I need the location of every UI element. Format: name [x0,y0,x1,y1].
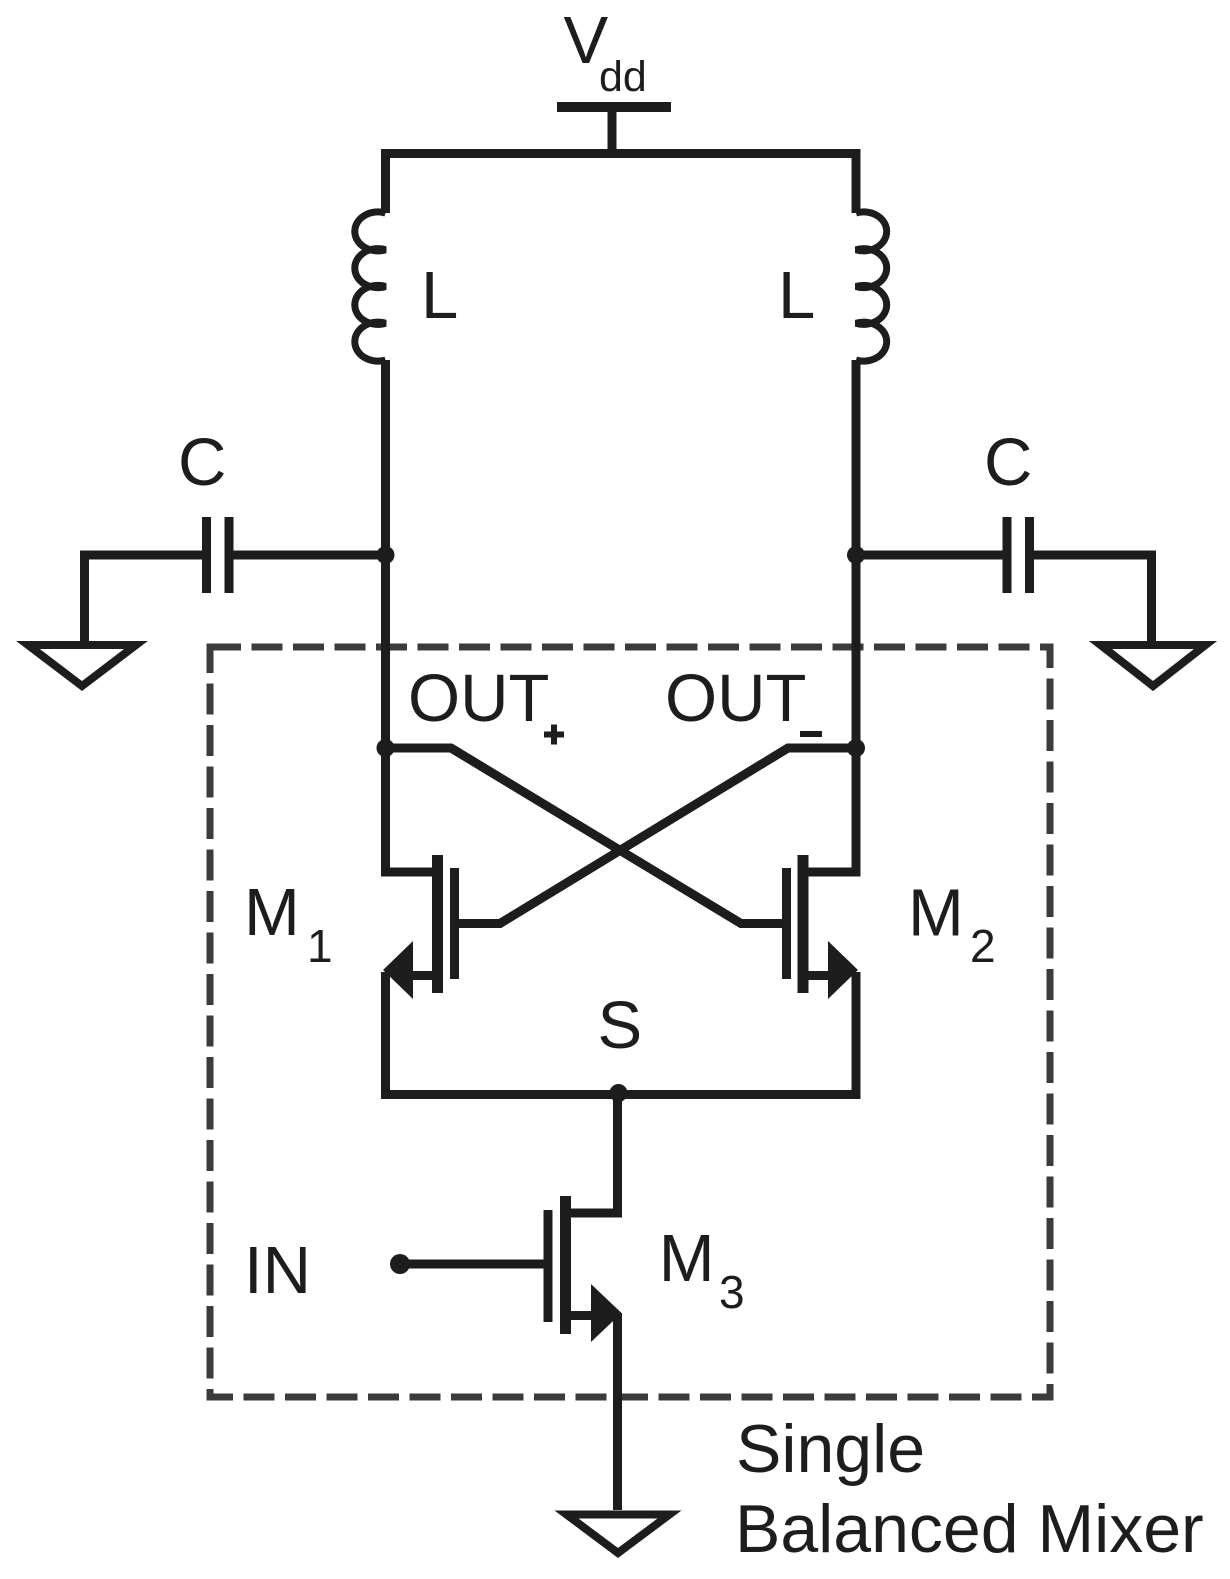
node S dot [610,1084,628,1102]
transistor M3 channel bar [560,1196,571,1334]
wire M1 source down + bottom S rail + M2 source down [386,972,857,1095]
svg-text:M: M [659,1221,715,1296]
capacitor C left plates [207,517,230,593]
svg-text:S: S [598,988,643,1063]
svg-text:L: L [778,258,815,333]
wire M3 source down to ground [613,1313,622,1510]
transistor M3 source lead [570,1311,592,1320]
svg-text:M: M [908,876,964,951]
transistor M3 source arrow [591,1284,622,1342]
label OUT+ plus sign [544,725,564,745]
capacitor C left wires [85,555,386,643]
transistor M1 channel bar [432,855,443,993]
svg-text:IN: IN [244,1233,311,1308]
svg-text:L: L [421,258,458,333]
wire cross-couple OUT+ to M2 gate [386,748,788,924]
transistor M2 source arrow [828,941,858,999]
svg-text:Balanced Mixer: Balanced Mixer [735,1491,1204,1567]
wire IN gate lead [400,1260,552,1269]
svg-text:2: 2 [970,920,996,972]
transistor M2 channel bar [798,855,809,993]
ground left [28,645,136,686]
svg-text:Single: Single [736,1411,925,1487]
svg-text:1: 1 [307,920,333,972]
svg-text:3: 3 [719,1266,745,1318]
capacitor C right plates [1007,517,1030,593]
ground bottom [567,1515,670,1554]
wire right branch [808,360,856,872]
svg-text:C: C [984,425,1032,500]
transistor M3 gate bar [544,1210,553,1322]
transistor M1 source lead [411,971,433,980]
node IN terminal dot [390,1254,410,1274]
wire S node stub to M3 drain [570,1090,618,1213]
inductor L right [856,212,887,361]
capacitor C right wires [856,555,1152,643]
inductor L left [355,212,386,361]
node OUT- dot [847,739,865,757]
transistor M2 gate bar [782,868,791,979]
svg-text:C: C [178,425,226,500]
transistor M1 source arrow [383,941,413,999]
wire cross-couple OUT- to M1 gate [454,748,856,924]
svg-text:M: M [244,875,300,950]
supply bar Vdd [557,102,671,112]
transistor M1 gate bar [450,868,459,979]
svg-text:OUT: OUT [408,661,549,736]
wire top rail [386,154,857,214]
transistor M2 source lead [808,971,830,980]
svg-text:OUT: OUT [665,661,806,736]
wire Vdd stub [608,107,617,153]
node right cap junction dot [847,546,865,564]
node OUT+ dot [377,739,395,757]
node left cap junction dot [377,546,395,564]
label OUT- minus sign [800,731,822,737]
ground right [1101,645,1206,686]
dashed box Single Balanced Mixer [210,647,1050,1397]
wire left branch [386,360,433,872]
svg-text:dd: dd [599,53,647,101]
